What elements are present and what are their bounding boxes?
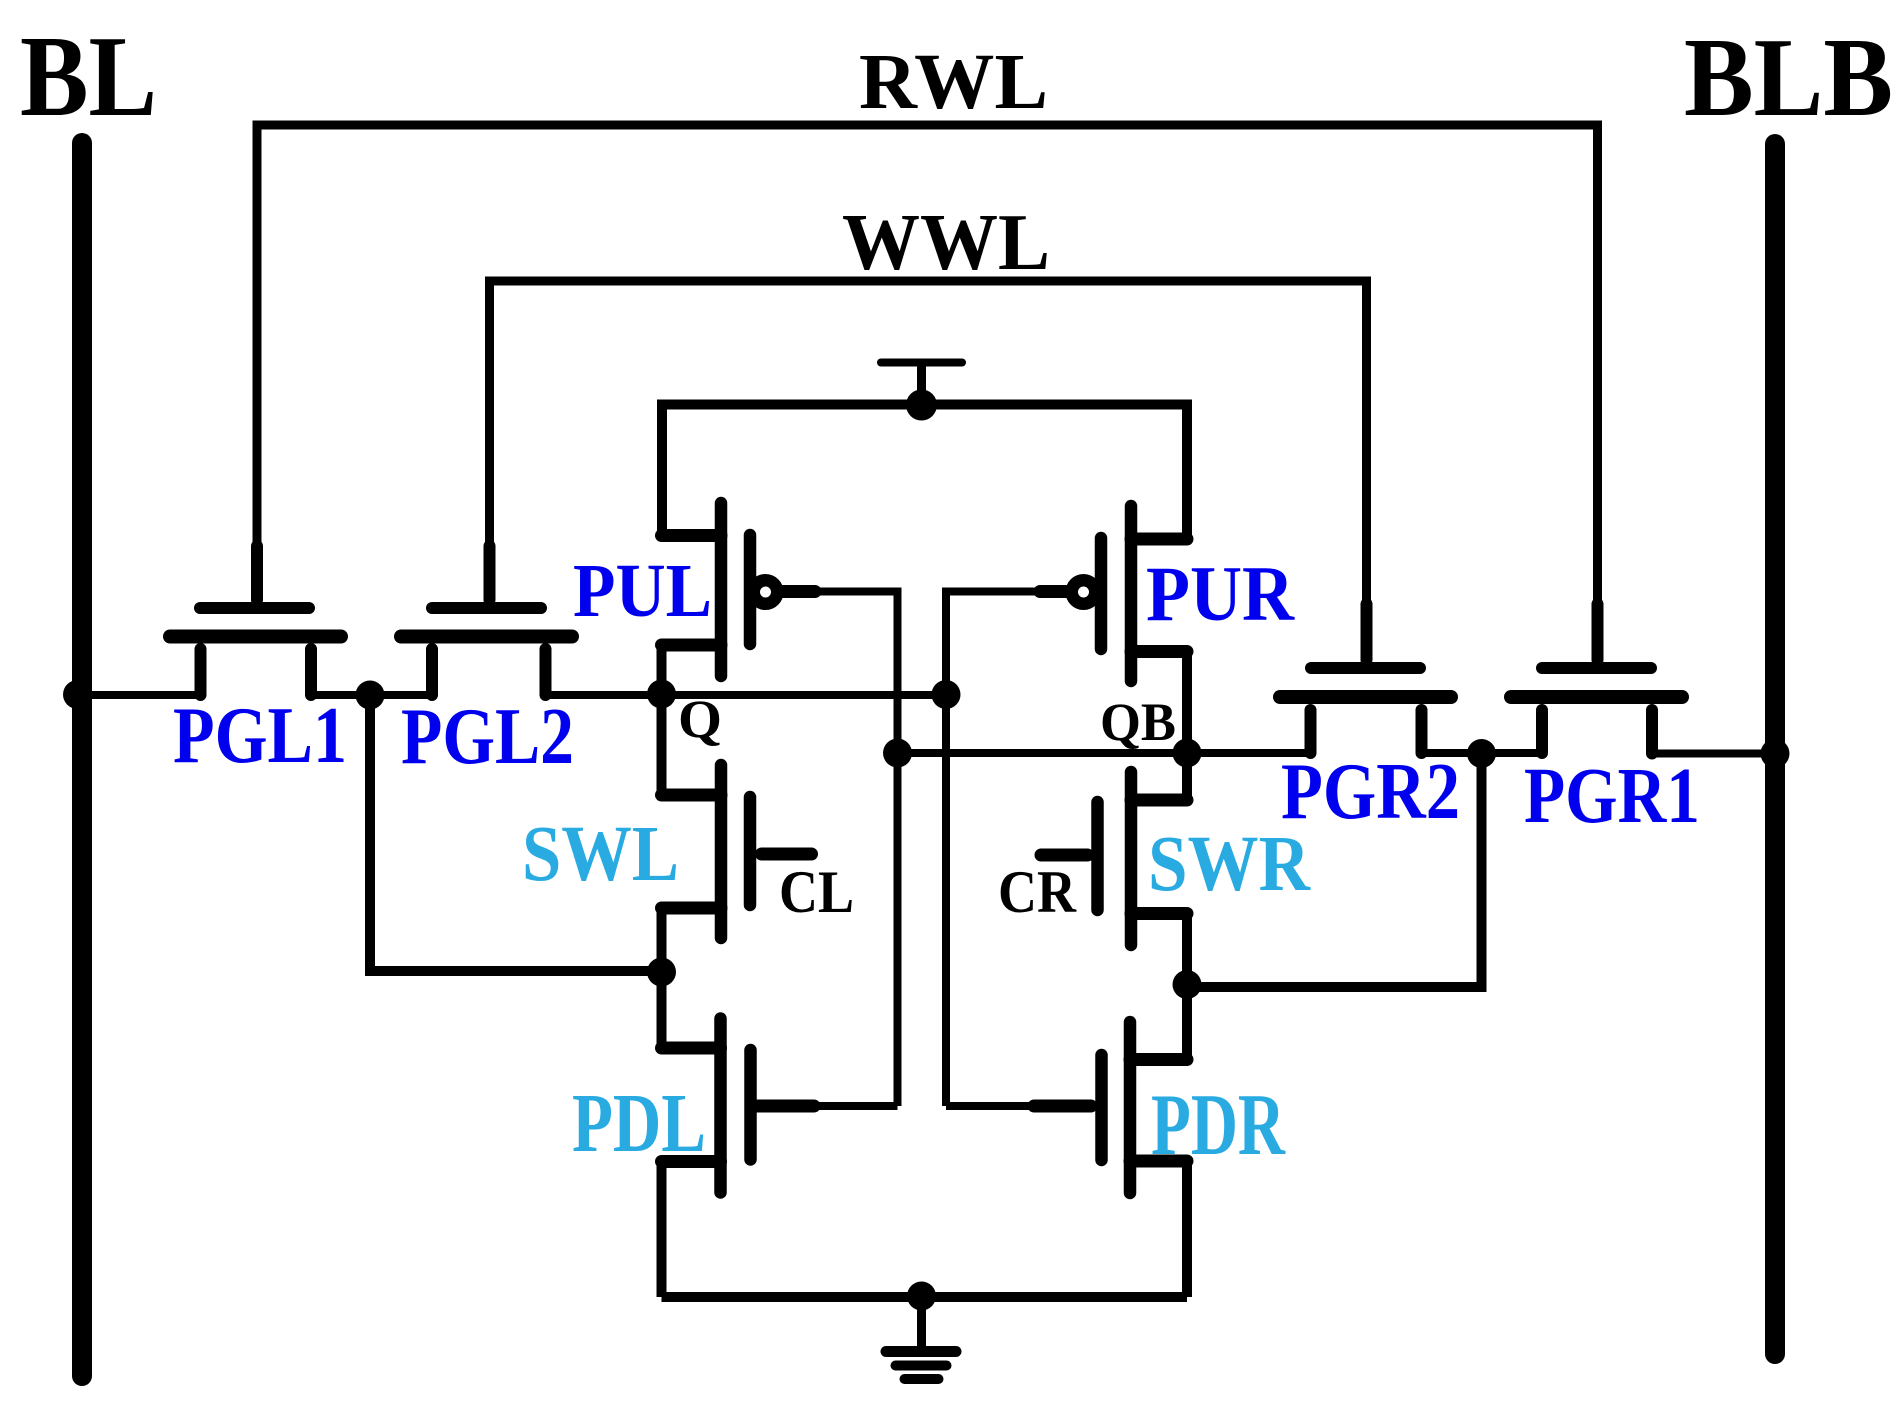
wire left column SWL to PDL xyxy=(657,908,667,1048)
wire QB row xyxy=(898,749,1776,758)
svg-text:PDL: PDL xyxy=(572,1077,706,1170)
svg-text:PGR2: PGR2 xyxy=(1281,748,1460,836)
wire RWL xyxy=(257,125,1598,610)
transistor PGR2 xyxy=(1280,604,1451,753)
wire left column PUL drain to SWL xyxy=(657,645,667,795)
bitline BL xyxy=(72,143,92,1376)
gate bubble PUL xyxy=(754,580,778,604)
wire cross-couple left (QB to PUL/PDL gates) xyxy=(757,588,898,1107)
junction dot BL to Q-row xyxy=(63,680,92,709)
capacitor CR lead xyxy=(1041,849,1088,862)
power VDD symbol xyxy=(881,363,962,396)
junction dot SWL-PDL node xyxy=(647,958,676,987)
transistor PUR xyxy=(1101,506,1187,681)
wire ground rail xyxy=(662,1292,1188,1302)
wire VDD rail xyxy=(662,405,1187,540)
junction dot PGR2-PGR1 xyxy=(1467,739,1496,768)
junction dot QB-row to left inverter gate xyxy=(883,739,912,768)
wire WWL xyxy=(490,281,1367,610)
wire right feedback SWR-PDR node to QB-row xyxy=(1187,754,1482,988)
wire right column SWR to PDR xyxy=(1182,914,1192,1060)
junction dot Q-row to right inverter gate xyxy=(932,680,961,709)
svg-text:PGL1: PGL1 xyxy=(173,692,347,780)
transistor SWR xyxy=(1098,772,1188,945)
svg-text:PGL2: PGL2 xyxy=(401,691,574,781)
gate bubble PUR xyxy=(1072,580,1096,604)
transistor PDL xyxy=(662,1019,751,1193)
transistor PGR1 xyxy=(1511,604,1682,754)
transistor SWL xyxy=(662,765,751,938)
svg-text:BL: BL xyxy=(20,13,157,140)
svg-text:PUR: PUR xyxy=(1146,550,1296,637)
wire cross-couple right (Q to PUR/PDR gates) xyxy=(946,588,1091,1107)
node Q dot xyxy=(647,680,676,709)
junction dot QB row at BLB xyxy=(1761,739,1790,768)
svg-text:BLB: BLB xyxy=(1684,16,1893,140)
wire Q row xyxy=(82,691,946,699)
transistor PGL2 xyxy=(401,546,572,695)
wire right column PDR to ground rail xyxy=(1182,1161,1192,1297)
svg-text:RWL: RWL xyxy=(859,39,1048,126)
svg-text:CL: CL xyxy=(779,859,854,925)
junction VDD dot xyxy=(906,390,937,421)
svg-text:Q: Q xyxy=(678,689,722,749)
ground xyxy=(886,1297,956,1379)
svg-text:WWL: WWL xyxy=(842,199,1050,287)
transistor PGL1 xyxy=(170,546,341,695)
junction dot SWR-PDR node xyxy=(1173,970,1202,999)
svg-text:PUL: PUL xyxy=(573,549,712,633)
bitline BLB xyxy=(1765,144,1785,1354)
junction ground dot xyxy=(907,1282,936,1311)
wire left column PDL to ground rail xyxy=(657,1162,667,1298)
wire left feedback Q-row to SWL-PDL node xyxy=(370,695,662,971)
capacitor CL lead xyxy=(762,848,812,861)
transistor PUL xyxy=(662,503,751,676)
svg-text:PGR1: PGR1 xyxy=(1524,753,1700,840)
transistor PDR xyxy=(1102,1022,1188,1193)
svg-text:QB: QB xyxy=(1100,692,1176,752)
svg-text:SWL: SWL xyxy=(522,811,679,898)
node QB dot xyxy=(1173,739,1202,768)
svg-text:CR: CR xyxy=(998,859,1077,925)
svg-text:PDR: PDR xyxy=(1151,1077,1286,1174)
junction dot PGL1-PGL2 xyxy=(356,681,385,710)
wire right column PUR drain to SWR xyxy=(1182,652,1192,801)
